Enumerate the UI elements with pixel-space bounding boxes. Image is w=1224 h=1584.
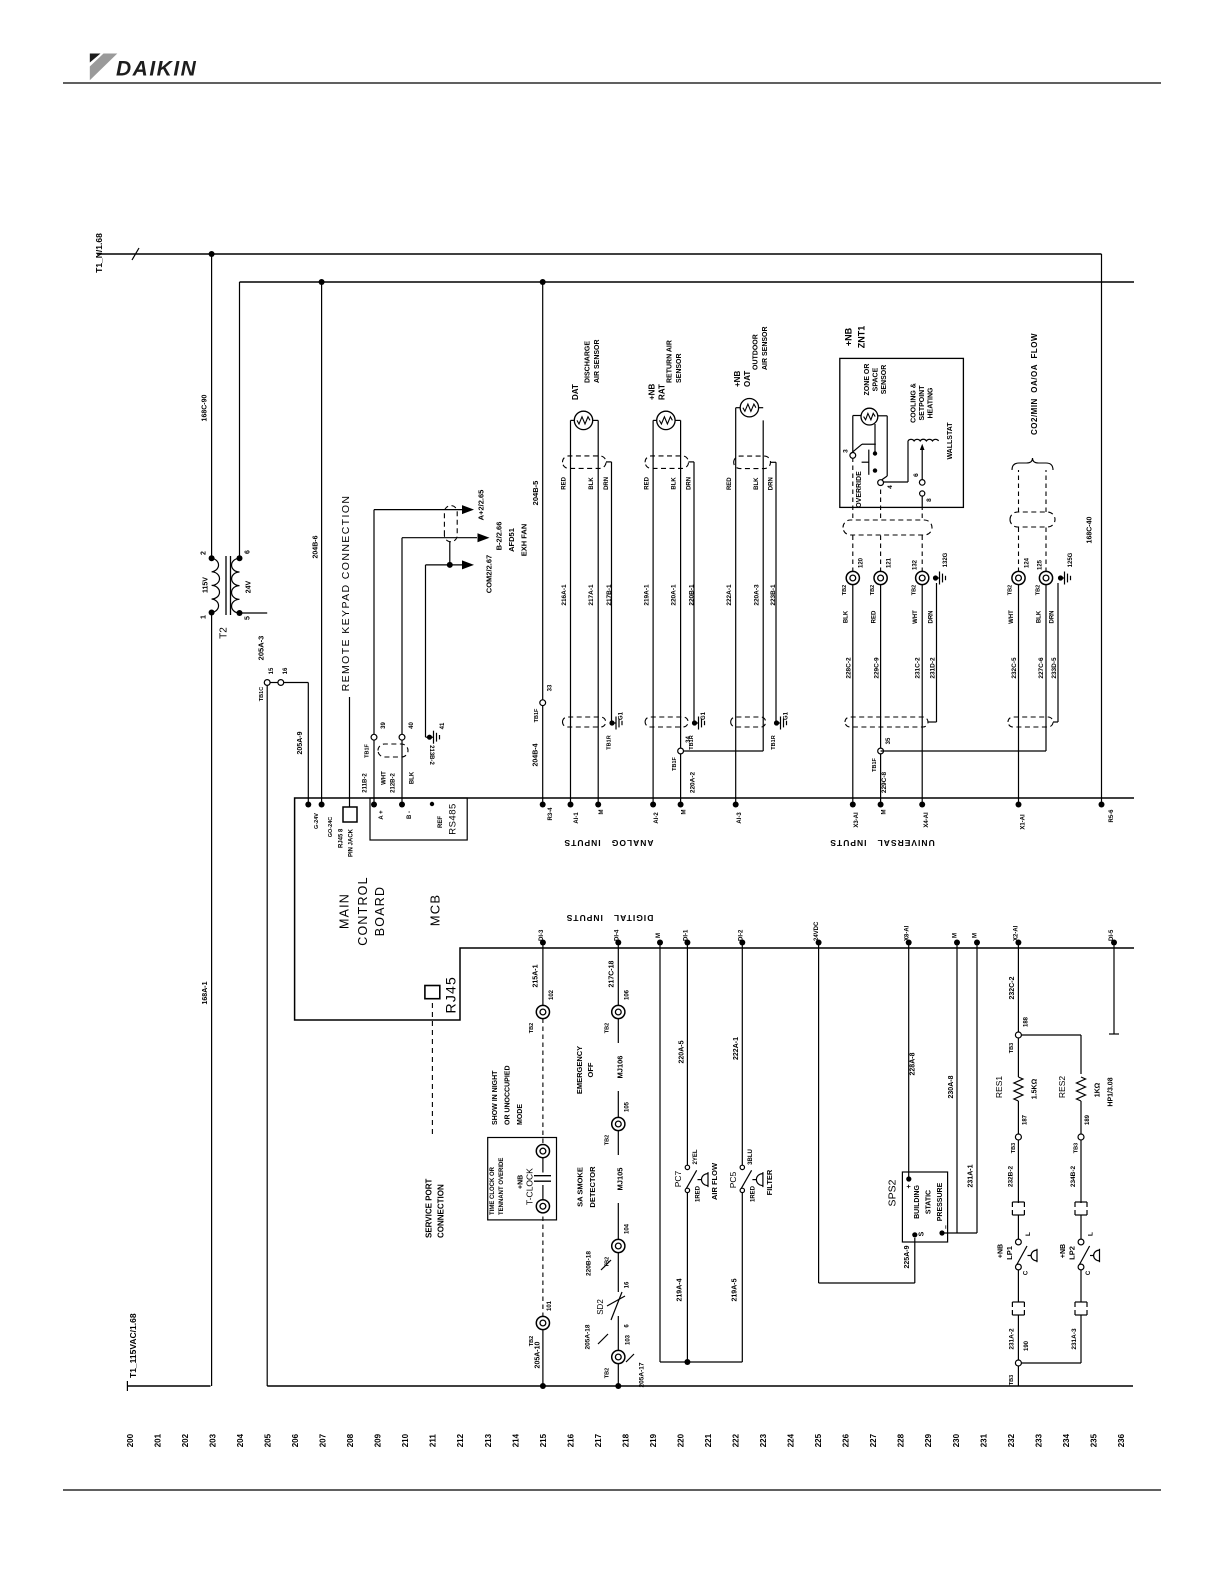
svg-text:DAT: DAT (571, 384, 580, 400)
svg-text:213: 213 (484, 1433, 493, 1447)
svg-text:COM2/2.67: COM2/2.67 (485, 555, 494, 593)
svg-text:234: 234 (1062, 1433, 1071, 1447)
svg-text:OVERRIDE: OVERRIDE (856, 471, 863, 508)
svg-text:220A-1: 220A-1 (670, 584, 677, 606)
svg-text:231D-2: 231D-2 (929, 657, 936, 679)
svg-text:R3-4: R3-4 (548, 807, 554, 821)
svg-text:1: 1 (201, 615, 208, 619)
svg-text:DI-4: DI-4 (615, 929, 621, 941)
svg-text:4: 4 (887, 485, 894, 489)
svg-text:105: 105 (625, 1101, 631, 1112)
svg-text:16: 16 (283, 667, 289, 674)
svg-text:TB1C: TB1C (259, 687, 265, 701)
svg-text:DISCHARGE: DISCHARGE (585, 341, 592, 383)
svg-text:101: 101 (547, 1300, 553, 1311)
svg-text:M: M (656, 933, 662, 938)
svg-text:DRN: DRN (929, 611, 935, 624)
svg-text:125G: 125G (1068, 552, 1074, 567)
svg-text:SD2: SD2 (596, 1299, 605, 1315)
svg-text:205A-10: 205A-10 (535, 1341, 542, 1368)
svg-text:208: 208 (346, 1433, 355, 1447)
svg-text:SERVICE PORT: SERVICE PORT (424, 1178, 433, 1238)
svg-text:DI-5: DI-5 (1109, 929, 1115, 941)
svg-text:AIR SENSOR: AIR SENSOR (762, 326, 769, 370)
svg-text:FILTER: FILTER (765, 1169, 774, 1195)
svg-text:TB2: TB2 (870, 585, 876, 595)
svg-text:COOLING &: COOLING & (911, 383, 918, 423)
svg-text:1.5KΩ: 1.5KΩ (1032, 1078, 1039, 1099)
svg-text:230A-8: 230A-8 (948, 1075, 955, 1098)
svg-text:215A-1: 215A-1 (533, 964, 540, 987)
svg-text:BLK: BLK (410, 771, 416, 784)
svg-text:231A-3: 231A-3 (1071, 1328, 1078, 1350)
svg-text:EXH FAN: EXH FAN (520, 524, 529, 557)
svg-text:AIR FLOW: AIR FLOW (710, 1162, 719, 1200)
svg-text:+NB: +NB (647, 384, 656, 400)
svg-text:MODE: MODE (517, 1104, 524, 1125)
svg-text:–: – (943, 1225, 950, 1229)
svg-text:217: 217 (594, 1433, 603, 1447)
svg-text:REMOTE KEYPAD CONNECTION: REMOTE KEYPAD CONNECTION (340, 495, 352, 692)
svg-text:B-2/2.66: B-2/2.66 (495, 522, 504, 551)
svg-text:RED: RED (727, 477, 733, 490)
svg-text:TENNANT OVERIDE: TENNANT OVERIDE (499, 1158, 505, 1215)
svg-text:231A-2: 231A-2 (1008, 1328, 1015, 1350)
svg-text:212B-2: 212B-2 (391, 773, 397, 793)
svg-text:230: 230 (952, 1433, 961, 1447)
svg-text:TB1R: TB1R (771, 735, 777, 749)
svg-text:DI-1: DI-1 (684, 929, 690, 941)
svg-text:TB3: TB3 (1011, 1143, 1017, 1153)
svg-text:233: 233 (1034, 1433, 1043, 1447)
svg-text:225: 225 (814, 1433, 823, 1447)
svg-text:WHT: WHT (913, 610, 919, 624)
svg-text:236: 236 (1117, 1433, 1126, 1447)
svg-text:+NB: +NB (844, 327, 854, 346)
svg-text:168C-90: 168C-90 (202, 394, 209, 421)
svg-text:233D-5: 233D-5 (1051, 657, 1058, 679)
svg-text:209: 209 (374, 1433, 383, 1447)
svg-text:HEATING: HEATING (928, 387, 935, 419)
svg-text:168A-1: 168A-1 (202, 981, 209, 1004)
svg-text:TB2: TB2 (1036, 585, 1042, 595)
svg-text:OUTDOOR: OUTDOOR (753, 334, 760, 370)
svg-text:SPACE: SPACE (873, 367, 880, 391)
svg-text:1RED: 1RED (696, 1185, 702, 1202)
svg-text:222A-1: 222A-1 (726, 584, 733, 606)
svg-text:201: 201 (153, 1433, 162, 1447)
svg-text:115V: 115V (203, 577, 210, 593)
svg-text:220B-1: 220B-1 (688, 584, 695, 606)
svg-text:TB1F: TB1F (872, 757, 878, 771)
svg-text:231A-1: 231A-1 (968, 1164, 975, 1187)
svg-text:234B-2: 234B-2 (1070, 1165, 1077, 1187)
svg-text:227C-6: 227C-6 (1038, 657, 1045, 679)
svg-text:219A-4: 219A-4 (677, 1278, 684, 1301)
svg-text:M: M (973, 933, 979, 938)
svg-text:EMERGENCY: EMERGENCY (575, 1046, 584, 1094)
svg-text:+: + (906, 1184, 913, 1188)
svg-text:RJ45: RJ45 (443, 976, 459, 1013)
svg-text:204B-6: 204B-6 (313, 535, 320, 558)
svg-text:BLK: BLK (844, 610, 850, 623)
svg-text:TB1R: TB1R (607, 735, 613, 749)
svg-text:C: C (1024, 1270, 1030, 1275)
svg-text:222: 222 (732, 1433, 741, 1447)
svg-text:TB2: TB2 (529, 1023, 535, 1033)
svg-text:15: 15 (269, 667, 275, 674)
svg-text:OR UNOCCUPIED: OR UNOCCUPIED (505, 1065, 512, 1125)
svg-text:231: 231 (979, 1433, 988, 1447)
svg-text:CO2/MIN OA/OA FLOW: CO2/MIN OA/OA FLOW (1030, 333, 1039, 435)
svg-text:HP1/3.08: HP1/3.08 (1108, 1077, 1115, 1106)
svg-text:222A-1: 222A-1 (733, 1037, 740, 1060)
svg-text:BLK: BLK (1037, 610, 1043, 623)
svg-text:106: 106 (625, 989, 631, 1000)
svg-text:40: 40 (409, 722, 415, 729)
svg-text:BLK: BLK (589, 477, 595, 490)
svg-text:2YEL: 2YEL (693, 1149, 699, 1164)
svg-text:R5-6: R5-6 (1109, 809, 1115, 823)
svg-text:3: 3 (842, 449, 849, 453)
svg-text:STATIC: STATIC (926, 1190, 933, 1214)
svg-text:RES2: RES2 (1057, 1076, 1067, 1098)
svg-text:220: 220 (677, 1433, 686, 1447)
svg-text:TB2: TB2 (1008, 585, 1014, 595)
svg-text:C: C (1086, 1270, 1092, 1275)
svg-text:226: 226 (842, 1433, 851, 1447)
svg-text:205: 205 (264, 1433, 273, 1447)
svg-text:ZONE OR: ZONE OR (864, 364, 871, 396)
svg-text:216: 216 (566, 1433, 575, 1447)
svg-text:124: 124 (1025, 557, 1031, 568)
svg-text:225A-9: 225A-9 (904, 1245, 911, 1268)
svg-text:DRN: DRN (769, 477, 775, 490)
svg-text:DRN: DRN (1050, 611, 1056, 624)
svg-text:207: 207 (319, 1433, 328, 1447)
svg-text:189: 189 (1085, 1114, 1091, 1125)
svg-text:104: 104 (625, 1223, 631, 1234)
svg-text:5: 5 (245, 616, 252, 620)
svg-text:BLK: BLK (671, 477, 677, 490)
svg-text:205A-3: 205A-3 (257, 636, 266, 661)
svg-text:L: L (1025, 1232, 1032, 1236)
svg-text:168C-40: 168C-40 (1087, 516, 1094, 543)
svg-text:231C-2: 231C-2 (914, 657, 921, 679)
svg-text:SENSOR: SENSOR (881, 365, 888, 395)
svg-text:132G: 132G (943, 552, 949, 567)
svg-text:232C-5: 232C-5 (1011, 657, 1018, 679)
svg-text:OFF: OFF (586, 1062, 595, 1077)
svg-text:219A-1: 219A-1 (643, 584, 650, 606)
svg-text:X2-AI: X2-AI (1014, 925, 1020, 941)
svg-text:DRN: DRN (604, 477, 610, 490)
svg-text:AFD51: AFD51 (507, 528, 516, 552)
svg-text:TB2: TB2 (605, 1023, 611, 1033)
svg-text:206: 206 (291, 1433, 300, 1447)
svg-text:RES1: RES1 (994, 1076, 1004, 1098)
svg-text:SPS2: SPS2 (886, 1179, 898, 1206)
svg-text:228: 228 (897, 1433, 906, 1447)
svg-text:T1_N/1.68: T1_N/1.68 (94, 233, 104, 273)
svg-text:223B-1: 223B-1 (770, 584, 777, 606)
svg-text:X3-AI: X3-AI (854, 812, 860, 828)
svg-text:TB2: TB2 (912, 585, 918, 595)
svg-text:TIME CLOCK OR: TIME CLOCK OR (490, 1166, 496, 1215)
svg-text:216A-1: 216A-1 (561, 584, 568, 606)
svg-text:229C-8: 229C-8 (881, 771, 888, 793)
svg-text:220A-2: 220A-2 (689, 771, 696, 793)
svg-text:PC5: PC5 (728, 1171, 738, 1188)
svg-text:TB2: TB2 (605, 1135, 611, 1145)
svg-text:35: 35 (886, 737, 892, 744)
svg-text:+NB: +NB (998, 1244, 1005, 1258)
svg-text:TB1F: TB1F (365, 743, 371, 757)
svg-text:TB2: TB2 (842, 585, 848, 595)
svg-text:+NB: +NB (1060, 1244, 1067, 1258)
svg-text:RJ45 8: RJ45 8 (339, 828, 345, 848)
svg-text:MJ106: MJ106 (616, 1056, 625, 1079)
svg-text:232C-2: 232C-2 (1009, 976, 1016, 999)
svg-text:217A-1: 217A-1 (588, 584, 595, 606)
svg-text:132: 132 (913, 559, 919, 570)
svg-text:M: M (953, 933, 959, 938)
svg-text:205A-17: 205A-17 (638, 1362, 645, 1387)
svg-text:187: 187 (1023, 1114, 1029, 1125)
svg-text:8: 8 (926, 498, 933, 502)
svg-text:220A-3: 220A-3 (753, 584, 760, 606)
svg-text:MAIN: MAIN (338, 893, 352, 929)
svg-text:205A-9: 205A-9 (297, 731, 304, 754)
svg-text:AIR SENSOR: AIR SENSOR (594, 339, 601, 383)
svg-text:204: 204 (236, 1433, 245, 1447)
svg-text:G1: G1 (619, 711, 625, 720)
svg-text:6: 6 (245, 550, 252, 554)
svg-text:UNIVERSAL INPUTS: UNIVERSAL INPUTS (829, 838, 934, 848)
svg-text:213B-2: 213B-2 (428, 745, 434, 765)
svg-text:125: 125 (1038, 559, 1044, 570)
svg-text:S: S (919, 1231, 926, 1236)
svg-text:235: 235 (1089, 1433, 1098, 1447)
svg-text:G1: G1 (701, 711, 707, 720)
svg-text:34: 34 (686, 736, 692, 743)
svg-text:217B-1: 217B-1 (606, 584, 613, 606)
svg-text:AI-3: AI-3 (737, 812, 743, 824)
svg-text:228C-2: 228C-2 (845, 657, 852, 679)
svg-text:X4-AI: X4-AI (924, 812, 930, 828)
svg-text:1KΩ: 1KΩ (1095, 1082, 1102, 1097)
svg-text:TB1F: TB1F (672, 756, 678, 770)
svg-text:232: 232 (1007, 1433, 1016, 1447)
svg-text:G1: G1 (784, 711, 790, 720)
svg-text:6: 6 (913, 473, 920, 477)
svg-text:MCB: MCB (427, 894, 442, 927)
svg-text:DAIKIN: DAIKIN (116, 58, 197, 81)
svg-text:223: 223 (759, 1433, 768, 1447)
svg-text:TB3: TB3 (1009, 1375, 1015, 1385)
svg-text:PC7: PC7 (673, 1170, 683, 1187)
svg-text:188: 188 (1024, 1016, 1030, 1027)
svg-text:227: 227 (869, 1433, 878, 1447)
svg-text:DI-3: DI-3 (539, 929, 545, 941)
svg-text:+NB: +NB (518, 1175, 525, 1189)
svg-text:102: 102 (549, 989, 555, 1000)
svg-text:DETECTOR: DETECTOR (588, 1166, 597, 1208)
svg-text:SHOW IN NIGHT: SHOW IN NIGHT (492, 1070, 499, 1125)
svg-text:BUILDING: BUILDING (914, 1185, 921, 1219)
svg-text:RED: RED (644, 476, 650, 489)
svg-text:REF: REF (438, 816, 444, 828)
svg-text:GO-24C: GO-24C (328, 817, 334, 838)
svg-text:DRN: DRN (687, 477, 693, 490)
svg-text:CONNECTION: CONNECTION (436, 1184, 445, 1238)
svg-text:RETURN AIR: RETURN AIR (667, 340, 674, 383)
svg-text:BOARD: BOARD (373, 886, 387, 936)
svg-text:ANALOG INPUTS: ANALOG INPUTS (563, 838, 653, 848)
svg-text:TB3: TB3 (1009, 1043, 1015, 1053)
svg-text:TB3: TB3 (1074, 1143, 1080, 1153)
svg-text:103: 103 (626, 1334, 632, 1345)
svg-text:TB1F: TB1F (534, 708, 540, 722)
svg-text:121: 121 (887, 557, 893, 568)
svg-text:AI-2: AI-2 (654, 812, 660, 824)
svg-text:229: 229 (924, 1433, 933, 1447)
svg-text:BLK: BLK (754, 477, 760, 490)
svg-text:219A-5: 219A-5 (732, 1278, 739, 1301)
svg-text:PRESSURE: PRESSURE (937, 1182, 944, 1221)
svg-text:T1_115VAC/1.68: T1_115VAC/1.68 (128, 1313, 138, 1378)
svg-text:RED: RED (872, 610, 878, 623)
svg-text:T2: T2 (219, 627, 230, 639)
svg-text:M: M (599, 810, 605, 815)
svg-text:228A-8: 228A-8 (910, 1052, 917, 1075)
svg-text:33: 33 (548, 684, 554, 691)
svg-text:2: 2 (201, 551, 208, 555)
svg-text:202: 202 (181, 1433, 190, 1447)
svg-text:M: M (682, 810, 688, 815)
svg-text:A +: A + (379, 810, 385, 820)
svg-text:DI-2: DI-2 (739, 929, 745, 941)
svg-text:LP2: LP2 (1068, 1246, 1077, 1260)
svg-text:ZNT1: ZNT1 (857, 326, 867, 349)
svg-text:RED: RED (562, 476, 568, 489)
svg-text:190: 190 (1024, 1340, 1030, 1351)
svg-text:204B-4: 204B-4 (533, 743, 540, 766)
svg-text:MJ105: MJ105 (616, 1168, 625, 1191)
svg-text:211B-2: 211B-2 (363, 773, 369, 793)
svg-text:LP1: LP1 (1005, 1246, 1014, 1260)
svg-text:39: 39 (381, 722, 387, 729)
svg-text:AI-1: AI-1 (574, 812, 580, 824)
svg-text:211: 211 (429, 1434, 438, 1447)
svg-text:200: 200 (126, 1433, 135, 1447)
svg-text:G-24V: G-24V (314, 813, 320, 829)
svg-text:218: 218 (621, 1433, 630, 1447)
svg-text:3BLU: 3BLU (748, 1149, 754, 1165)
svg-text:214: 214 (511, 1433, 520, 1447)
svg-text:T-CLOCK: T-CLOCK (525, 1168, 535, 1205)
svg-text:120: 120 (859, 557, 865, 568)
svg-text:SA SMOKE: SA SMOKE (576, 1167, 585, 1207)
svg-text:232B-2: 232B-2 (1007, 1165, 1014, 1187)
svg-text:24VDC: 24VDC (814, 921, 820, 941)
svg-text:RS485: RS485 (447, 803, 458, 835)
svg-text:CONTROL: CONTROL (356, 876, 370, 946)
svg-text:203: 203 (209, 1433, 218, 1447)
svg-text:224: 224 (787, 1433, 796, 1447)
svg-text:219: 219 (649, 1433, 658, 1447)
svg-text:217C-18: 217C-18 (609, 960, 616, 987)
svg-text:24V: 24V (246, 580, 253, 593)
svg-text:204B-5: 204B-5 (531, 481, 540, 506)
svg-text:215: 215 (539, 1433, 548, 1447)
svg-text:41: 41 (440, 722, 446, 729)
svg-text:205A-18: 205A-18 (584, 1324, 591, 1349)
svg-text:16: 16 (625, 1281, 631, 1288)
svg-text:221: 221 (704, 1433, 713, 1447)
svg-text:+NB: +NB (733, 371, 742, 387)
svg-text:DIGITAL INPUTS: DIGITAL INPUTS (566, 913, 654, 923)
svg-text:X1-AI: X1-AI (1021, 814, 1027, 830)
svg-text:L: L (1087, 1232, 1094, 1236)
svg-text:SETPOINT: SETPOINT (919, 385, 926, 421)
svg-text:WHT: WHT (382, 771, 388, 785)
svg-text:RAT: RAT (657, 384, 666, 400)
svg-text:210: 210 (401, 1433, 410, 1447)
svg-text:220A-5: 220A-5 (679, 1040, 686, 1063)
svg-text:SENSOR: SENSOR (676, 353, 683, 383)
svg-text:TB2: TB2 (605, 1368, 611, 1378)
svg-text:B -: B - (407, 811, 413, 819)
svg-text:WALLSTAT: WALLSTAT (947, 422, 954, 460)
svg-text:M: M (882, 810, 888, 815)
svg-text:X8-AI: X8-AI (905, 925, 911, 941)
svg-text:A+2/2.65: A+2/2.65 (477, 490, 486, 521)
svg-text:220B-18: 220B-18 (585, 1251, 592, 1276)
svg-text:OAT: OAT (743, 371, 752, 387)
svg-text:1RED: 1RED (751, 1185, 757, 1202)
svg-text:212: 212 (456, 1433, 465, 1447)
svg-text:229C-9: 229C-9 (873, 657, 880, 679)
svg-text:PIN JACK: PIN JACK (349, 828, 355, 857)
svg-text:WHT: WHT (1009, 610, 1015, 624)
